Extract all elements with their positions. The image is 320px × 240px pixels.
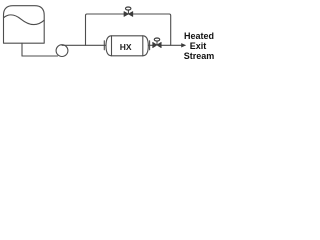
wire: bypass riser bbox=[86, 14, 88, 45]
wire: bypass top run bbox=[87, 13, 169, 15]
heat exchanger HX right flange bbox=[149, 41, 151, 50]
svg-text:HX: HX bbox=[120, 42, 132, 52]
pump P1 bbox=[56, 45, 68, 57]
heat exchanger HX shell body bbox=[112, 36, 143, 56]
svg-text:Heated: Heated bbox=[184, 31, 214, 41]
valve V2 (exit valve) bbox=[153, 38, 162, 48]
wire: bypass downcomer bbox=[169, 14, 171, 45]
wire: valve V2 to exit arrow bbox=[161, 44, 181, 46]
liquid level wave bbox=[4, 15, 45, 25]
wire: HX outlet to valve V2 bbox=[148, 44, 152, 46]
svg-text:Stream: Stream bbox=[184, 51, 215, 61]
tank T1 (feed tank, rounded top) bbox=[4, 6, 45, 44]
svg-text:Exit: Exit bbox=[190, 41, 207, 51]
heat exchanger HX right head bbox=[143, 36, 149, 56]
wire: tank outlet horizontal to pump bbox=[22, 55, 58, 57]
arrow: heated exit stream bbox=[181, 43, 186, 47]
heat exchanger HX left flange bbox=[103, 41, 105, 50]
wire: pump discharge to HX inlet bbox=[62, 44, 106, 46]
wire: tank outlet down bbox=[21, 43, 23, 56]
heat exchanger HX left head bbox=[106, 36, 112, 56]
valve V1 (bypass valve) bbox=[124, 7, 133, 17]
